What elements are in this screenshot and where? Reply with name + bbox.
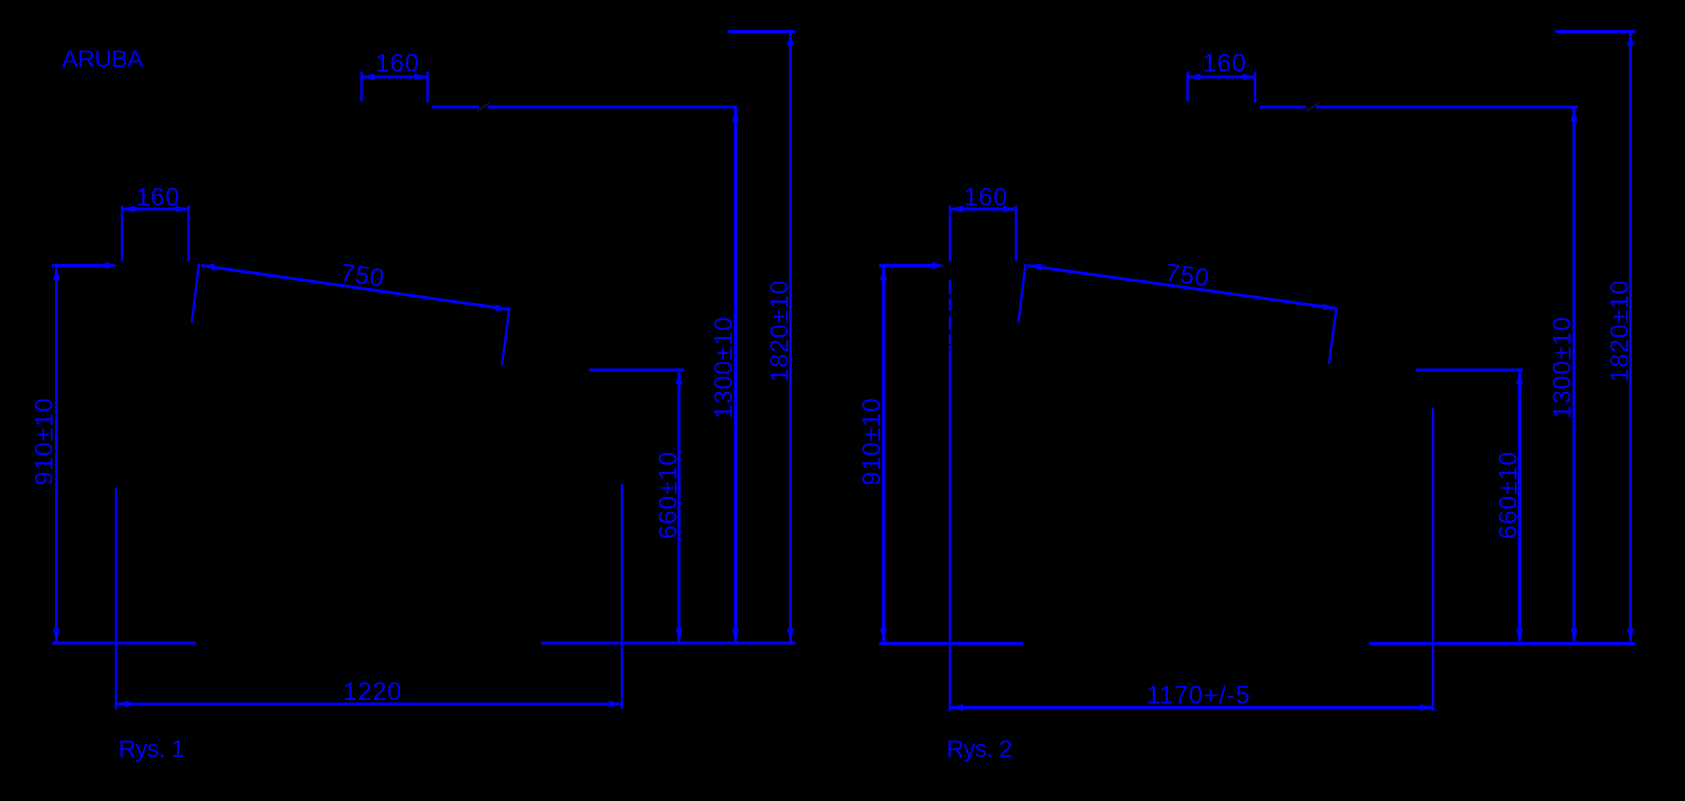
svg-text:660±10: 660±10 (1495, 451, 1523, 539)
svg-text:160: 160 (1202, 50, 1246, 78)
text 160 (lower) (136, 184, 180, 212)
extension line top of 1300 dim (right segment) (488, 106, 737, 109)
bottom reference line (fig2 left part) (879, 642, 1023, 645)
extension line top of 1820 dim (fig2) (1555, 30, 1635, 33)
dimension line 910±10 (fig2) (880, 267, 887, 642)
text 160 (lower fig2) (964, 184, 1008, 212)
dimension line 910±10 (53, 267, 60, 642)
extension line left of top 160 (fig2) (1186, 72, 1188, 102)
extension line left of top 160 (360, 72, 362, 102)
extension line left of lower 160 / base edge (fig2, solid top part) (949, 206, 951, 263)
dimension line 1820±10 (fig2) (1627, 33, 1634, 642)
text 910±10 (fig2) (858, 397, 886, 485)
hidden edge dashes (fig2) (949, 280, 951, 344)
extension line right of 750 (502, 307, 510, 366)
svg-text:660±10: 660±10 (655, 451, 683, 539)
svg-text:160: 160 (964, 184, 1008, 212)
extension line top of 660 dim (fig2) (1416, 369, 1523, 372)
dimension line 750 (fig2) (1028, 264, 1337, 310)
extension line right of 1220 dim (621, 484, 623, 710)
dimension line 1820±10 (787, 33, 794, 642)
extension line left of 1220 dim (115, 488, 117, 710)
text 1820±10 (fig2) (1606, 280, 1634, 383)
dimension line 660±10 (676, 372, 683, 642)
bottom reference line (fig2 right part) (1369, 642, 1635, 645)
svg-text:1820±10: 1820±10 (766, 280, 794, 383)
dimension line 160 (lower canopy fig2) (950, 206, 1016, 213)
text Rys. 1 (119, 736, 185, 763)
text 750 (fig2) (1164, 259, 1212, 293)
extension line right of top 160 (fig2) (1254, 72, 1256, 103)
dimension line 160 (top canopy fig2) (1188, 74, 1256, 81)
dimension line 660±10 (fig2) (1516, 372, 1523, 642)
break slash on extension line (478, 103, 490, 111)
dimension line 1220 (116, 701, 622, 708)
extension line right of 1170 dim (fig2) (1432, 408, 1434, 711)
svg-text:Rys. 2: Rys. 2 (947, 736, 1013, 763)
dimension line 160 (lower canopy) (122, 206, 189, 213)
extension line top of 910 dim with arrow to case edge (52, 262, 118, 269)
extension line left of 750 (fig2) (1019, 264, 1026, 323)
svg-text:910±10: 910±10 (858, 397, 886, 485)
extension line right of lower 160 (fig2) (1015, 206, 1017, 262)
svg-text:160: 160 (375, 50, 419, 78)
text 160 (top fig2) (1202, 50, 1246, 78)
extension line left of 1170 dim (fig2, solid lower part) (949, 345, 951, 711)
extension line top of 1820 dim (728, 30, 795, 33)
extension line top of 910 dim with arrow (fig2) (879, 262, 945, 269)
dimension line 160 (top canopy) (362, 74, 428, 81)
text Rys. 2 (947, 736, 1013, 763)
bottom reference line (right part) (541, 642, 796, 645)
dimension line 1300±10 (fig2) (1571, 109, 1578, 642)
text 660±10 (fig2) (1495, 451, 1523, 539)
text ARUBA (62, 46, 143, 73)
svg-text:1300±10: 1300±10 (1549, 316, 1577, 419)
text 660±10 (655, 451, 683, 539)
svg-text:ARUBA: ARUBA (62, 46, 143, 73)
svg-text:160: 160 (136, 184, 180, 212)
dimension line 750 (slanted glass) (201, 264, 510, 311)
extension line right of 750 (fig2) (1329, 307, 1337, 364)
extension line top of 1300 dim (left segment) (432, 106, 479, 109)
svg-text:Rys. 1: Rys. 1 (119, 736, 185, 763)
svg-text:1170+/-5: 1170+/-5 (1147, 682, 1251, 710)
extension line left of 750 (192, 264, 199, 323)
extension line top of 1300 dim (fig2 right segment) (1316, 106, 1578, 109)
text 750 (339, 259, 387, 293)
svg-text:1300±10: 1300±10 (710, 316, 738, 419)
svg-text:1820±10: 1820±10 (1606, 280, 1634, 383)
text 160 (top) (375, 50, 419, 78)
dimension line 1170+/-5 (fig2) (950, 704, 1433, 711)
text 1820±10 (766, 280, 794, 383)
text 1300±10 (fig2) (1549, 316, 1577, 419)
text 1300±10 (710, 316, 738, 419)
text 910±10 (31, 397, 59, 485)
extension line top of 660 dim (589, 369, 684, 372)
bottom reference line (left part) (52, 642, 196, 645)
break slash on extension line (fig2) (1307, 103, 1319, 111)
text 1170+/-5 (1147, 682, 1251, 710)
dimension line 1300±10 (732, 109, 739, 642)
extension line right of lower 160 (187, 206, 189, 262)
text 1220 (343, 678, 402, 706)
svg-text:1220: 1220 (343, 678, 402, 706)
extension line left of lower 160 (121, 206, 123, 262)
extension line top of 1300 dim (fig2 left segment) (1260, 106, 1306, 109)
svg-text:910±10: 910±10 (31, 397, 59, 485)
extension line right of top 160 (426, 72, 428, 103)
